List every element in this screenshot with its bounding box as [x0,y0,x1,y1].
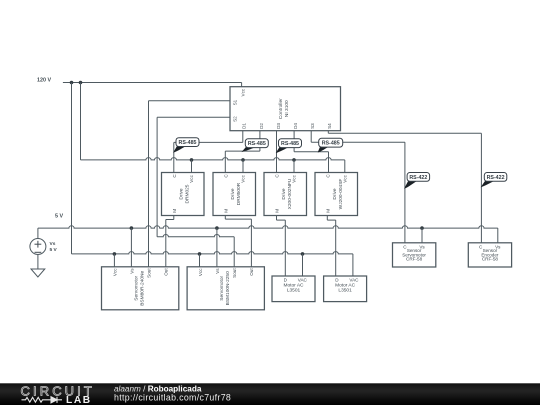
net flag RS-485 #3 [276,139,302,153]
footer author title [114,385,202,394]
junction on 120V rail at x=71 [70,81,74,85]
svg-text:120 V: 120 V [37,78,51,84]
logo LAB text [66,395,92,405]
logo diode symbol [48,397,63,403]
wire 120V drop to AC rail [71,83,73,254]
sensor Encoder CRF-58 [468,243,511,267]
logo resistor symbol [22,397,48,402]
wire S4 net: controller S4 to sensor2 C [328,131,481,243]
svg-text:LAB: LAB [66,395,92,405]
net flag RS-485 #1 [173,138,199,153]
svg-text:Vs: Vs [215,268,220,274]
label Vs 5V [50,241,58,253]
svg-text:Drive: Drive [179,188,185,200]
wire S2 net: controller S2 to servo2 Sout [157,117,234,266]
svg-text:RS-485: RS-485 [179,140,197,146]
drive U3 DRM500R [213,173,256,216]
wire S3 net: controller S3 to sensor1 C [311,131,405,243]
svg-text:D1: D1 [242,123,247,129]
svg-text:D3: D3 [276,123,281,129]
svg-text:S3: S3 [310,123,315,129]
svg-text:Sout: Sout [146,268,151,278]
wire 120V drop to drive Vcc bus [80,83,82,160]
junction sensor1 Vs tap [420,226,424,230]
svg-text:Vcc: Vcc [240,88,245,96]
junction servo1 Vs tap [130,226,134,230]
svg-text:RS-485: RS-485 [322,141,340,147]
motor AC M3 L3501 [272,276,315,302]
svg-text:DRM025: DRM025 [185,184,191,203]
drive U4 X200-002NFU [264,173,307,216]
svg-text:S1: S1 [233,99,238,105]
wire motor1 VAC drop [302,254,304,276]
net flag RS-485 #4 [318,138,343,152]
svg-text:VAC: VAC [349,278,359,283]
footer url [114,393,231,403]
svg-text:BSM80R-240Ne: BSM80R-240Ne [140,271,146,306]
label 120 V [37,78,51,84]
wire sensor1 Vs drop [421,228,423,243]
svg-text:Drive: Drive [332,188,338,200]
svg-text:S4: S4 [327,123,332,129]
svg-text:D4: D4 [293,123,298,129]
svg-text:L3501: L3501 [338,287,352,293]
net flag RS-422 #2 [481,173,507,188]
junction drive1 Vcc [190,158,194,162]
svg-text:WJ200-004SF: WJ200-004SF [338,179,344,210]
svg-text:M: M [224,209,229,213]
wire AC supply rail y=253 [72,252,353,276]
svg-text:Servomotor: Servomotor [134,276,140,301]
drive U2 DRM025 [162,173,205,216]
svg-text:Out: Out [249,268,254,276]
svg-text:DRM500R: DRM500R [236,182,242,205]
label 5 V node [55,214,63,220]
svg-text:D2: D2 [259,123,264,129]
svg-text:Sout: Sout [232,268,237,278]
wire 5V rail [38,226,498,243]
svg-text:Vcc: Vcc [112,268,117,276]
junction motor1 VAC tap [301,252,305,256]
wire drive4 M to motor2 D [327,216,335,277]
junction servo2 Vcc tap [198,252,202,256]
svg-text:http://circuitlab.com/c7ufr78: http://circuitlab.com/c7ufr78 [114,393,231,403]
wire D4 net: controller D4 to drive4 C [294,131,328,173]
svg-text:X200-002NFU: X200-002NFU [287,178,293,209]
svg-text:Vs: Vs [50,241,56,247]
svg-text:S2: S2 [233,116,238,122]
wire servo2 Vcc drop [199,254,201,267]
wire drive2 Vcc [242,160,244,173]
svg-text:RS-422: RS-422 [487,175,505,181]
svg-text:M: M [326,209,331,213]
svg-text:BSM100N-2250: BSM100N-2250 [225,271,231,305]
net flag RS-422 #1 [404,173,430,189]
svg-text:RS-485: RS-485 [281,141,299,147]
junction drive3 Vcc [292,158,296,162]
svg-text:Drive: Drive [281,188,287,200]
servomotor M2 BSM100N-2250 [187,267,264,310]
svg-text:5 V: 5 V [55,214,63,220]
svg-text:RS-422: RS-422 [409,175,427,181]
svg-text:NI 3100: NI 3100 [284,100,290,117]
svg-text:5 V: 5 V [50,247,58,253]
drive U5 WJ200-004SF [315,173,358,216]
wire servo2 Vs drop [216,228,218,267]
svg-text:Vs: Vs [129,268,134,274]
wire servo1 Vcc drop [113,254,115,267]
svg-text:Vcc: Vcc [189,174,194,182]
svg-text:Controller: Controller [278,98,284,119]
svg-text:M: M [275,209,280,213]
wire drive1 Vcc [191,160,193,173]
servomotor M1 BSM80R-240Ne [102,267,179,310]
wire controller Vcc drop [241,83,243,87]
svg-text:Drive: Drive [230,188,236,200]
voltage source Vs 5V [30,239,46,255]
svg-text:CRF-58: CRF-58 [406,257,423,262]
motor AC M4 L3501 [324,276,367,302]
svg-text:VAC: VAC [298,278,308,283]
svg-text:Servomotor: Servomotor [219,276,225,301]
wire drive Vcc bus y=159 [81,158,345,173]
svg-text:L3501: L3501 [287,287,301,293]
wire S1 net: controller S1 to servo1 Sout [149,101,231,267]
junction servo2 Vs tap [215,226,219,230]
junction drive2 Vcc [241,158,245,162]
svg-text:M: M [172,209,177,213]
junction on 120V rail at x=80 [79,81,83,85]
wire drive3 M to motor1 D [277,216,286,277]
footer bar [0,383,540,405]
wire drive1 M to servo1 Out [166,216,174,267]
wire D1 net: controller D1 to drive1 C [174,131,243,173]
wire drive3 Vcc [293,160,295,173]
wire D2 net: controller D2 to drive2 C [225,131,260,173]
wire drive2 M to servo2 Out [225,216,251,267]
controller U1 NI 3100 [230,87,341,131]
sensor Servomotor CRF-58 [393,243,436,267]
wire source to ground [37,255,39,270]
CircuitLab logo CIRCUIT [21,383,95,398]
node 120V rail [63,82,242,84]
junction servo1 Vcc tap [113,252,117,256]
svg-text:Vcc: Vcc [241,174,246,182]
svg-text:Out: Out [163,268,168,276]
net flag RS-485 #2 [242,139,269,152]
ground [31,269,45,277]
svg-text:CRF-58: CRF-58 [482,257,499,262]
wire D3 net: controller D3 to drive3 C [276,131,278,173]
svg-text:RS-485: RS-485 [248,141,266,147]
wire servo1 Vs drop [130,228,132,267]
svg-text:Vcc: Vcc [198,268,203,276]
